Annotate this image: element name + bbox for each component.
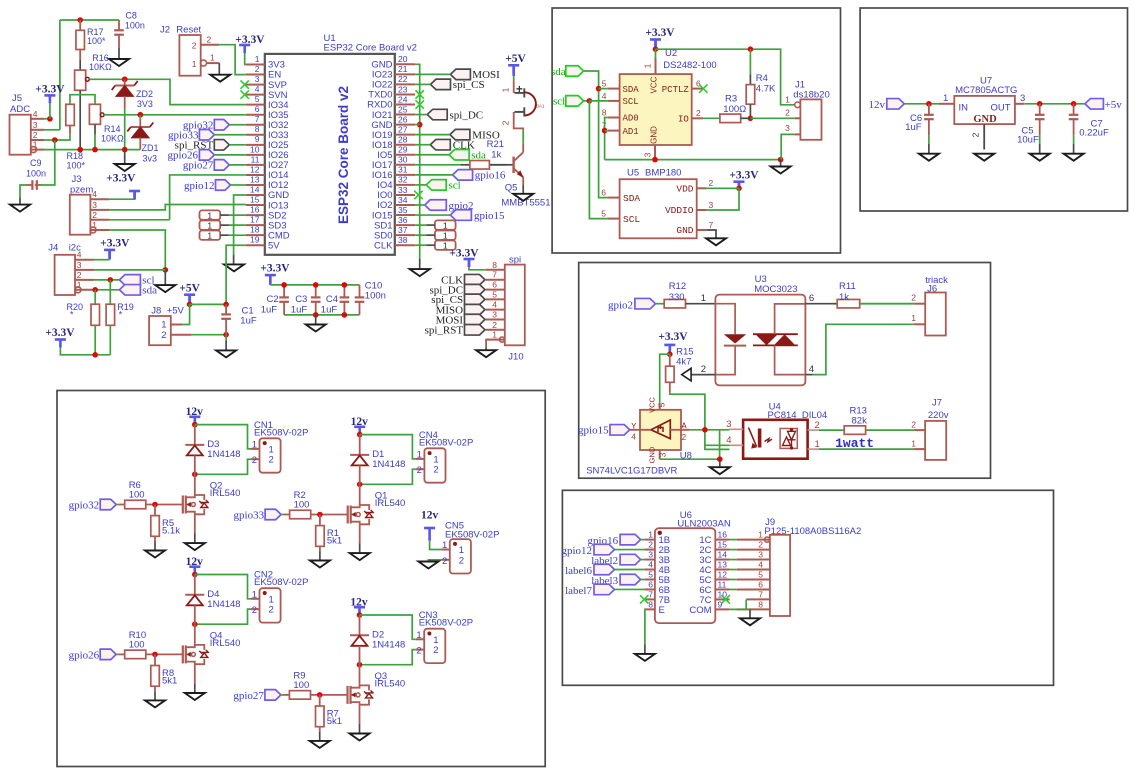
svg-text:4: 4 [726,435,731,446]
svg-text:scl: scl [449,180,461,192]
svg-text:6: 6 [758,579,763,589]
svg-text:+3.3V: +3.3V [106,173,136,185]
svg-text:ESP32 Core Board v2: ESP32 Core Board v2 [336,86,351,224]
svg-text:2: 2 [709,178,714,188]
svg-text:J8: J8 [151,305,161,316]
svg-text:4: 4 [77,250,82,260]
svg-text:17: 17 [250,215,260,225]
svg-text:gpio15: gpio15 [474,210,505,222]
svg-text:2: 2 [92,210,97,220]
svg-text:+3.3V: +3.3V [449,247,479,259]
svg-text:GND: GND [676,225,693,236]
svg-text:1: 1 [492,330,497,340]
svg-text:gpio12: gpio12 [184,180,215,192]
svg-text:C9: C9 [30,158,42,168]
svg-text:label6: label6 [565,565,592,577]
svg-text:13: 13 [250,174,260,184]
svg-text:1: 1 [758,530,763,540]
svg-text:3: 3 [785,123,790,133]
svg-text:18: 18 [250,225,260,235]
svg-text:6: 6 [696,78,701,88]
svg-text:100: 100 [293,680,309,691]
svg-text:1uF: 1uF [905,122,922,133]
svg-text:E: E [659,605,665,616]
svg-text:14: 14 [718,550,728,560]
svg-text:ADC: ADC [10,104,30,115]
svg-text:GND: GND [973,114,997,125]
svg-text:16: 16 [718,530,728,540]
svg-text:IRL540: IRL540 [375,679,406,690]
svg-text:1: 1 [416,630,421,641]
svg-text:gpio27: gpio27 [183,160,214,172]
svg-text:14: 14 [250,184,260,194]
svg-text:DS2482-100: DS2482-100 [663,60,716,71]
svg-text:2: 2 [433,645,438,656]
svg-text:22: 22 [398,74,408,84]
svg-text:MC7805ACTG: MC7805ACTG [955,85,1017,96]
svg-text:28: 28 [398,135,408,145]
svg-text:1uF: 1uF [240,316,257,327]
svg-text:1: 1 [701,293,706,304]
svg-text:GND: GND [648,446,657,463]
svg-text:J2: J2 [160,25,170,36]
svg-text:2: 2 [696,108,701,118]
svg-text:100*: 100* [87,36,106,46]
svg-text:3: 3 [77,260,82,270]
svg-text:label7: label7 [565,585,592,597]
svg-text:1N4148: 1N4148 [207,599,240,610]
svg-text:2: 2 [416,646,421,657]
svg-text:1: 1 [442,540,447,551]
svg-text:32: 32 [398,175,408,185]
svg-text:10: 10 [718,589,728,599]
svg-text:J3: J3 [72,174,82,185]
svg-text:5: 5 [758,569,763,579]
svg-text:CLK: CLK [374,240,393,251]
svg-text:Reset: Reset [176,25,201,36]
svg-text:spi_RST: spi_RST [425,325,464,337]
svg-text:6: 6 [255,104,260,114]
svg-text:8: 8 [758,599,763,609]
svg-text:AD0: AD0 [623,114,639,124]
svg-text:2: 2 [500,120,510,125]
svg-text:15: 15 [718,540,728,550]
svg-text:1: 1 [815,439,820,450]
svg-text:31: 31 [398,165,408,175]
svg-text:ZD2: ZD2 [136,89,153,99]
svg-text:R21: R21 [487,139,504,150]
svg-text:3: 3 [658,452,668,457]
svg-text:3: 3 [758,550,763,560]
svg-text:13: 13 [718,560,728,570]
svg-text:C2: C2 [267,294,279,305]
svg-text:4: 4 [809,364,814,375]
svg-text:BMP180: BMP180 [645,168,681,179]
svg-text:5k1: 5k1 [327,716,342,727]
svg-text:34: 34 [398,195,408,205]
svg-text:U8: U8 [680,451,692,462]
svg-text:5: 5 [492,289,497,299]
svg-text:+5V: +5V [167,305,185,316]
svg-text:4: 4 [492,300,497,310]
svg-text:11: 11 [718,579,727,589]
svg-text:9: 9 [718,599,723,609]
svg-text:1N4148: 1N4148 [372,640,405,651]
svg-text:100n: 100n [365,291,386,302]
svg-text:3V3: 3V3 [137,99,153,109]
svg-text:3: 3 [643,152,653,157]
svg-text:2: 2 [648,540,653,550]
svg-text:U5: U5 [627,168,639,179]
svg-text:1k: 1k [491,150,501,161]
svg-text:1: 1 [643,63,653,68]
svg-text:2: 2 [492,320,497,330]
svg-text:gpio32: gpio32 [69,500,100,512]
svg-text:20: 20 [398,54,408,64]
svg-text:2: 2 [255,64,260,74]
svg-text:IRL540: IRL540 [210,638,241,649]
svg-text:gpio15: gpio15 [578,425,609,437]
svg-text:1: 1 [443,241,448,251]
svg-text:5: 5 [602,79,607,89]
svg-text:100*: 100* [67,161,86,171]
svg-text:SN74LVC1G17DBVR: SN74LVC1G17DBVR [586,466,677,477]
svg-text:R12: R12 [669,281,686,292]
svg-text:38: 38 [398,235,408,245]
svg-text:33: 33 [398,185,408,195]
svg-text:1: 1 [943,93,948,104]
svg-text:VCC: VCC [648,397,657,413]
svg-text:Y: Y [631,422,636,432]
svg-text:8: 8 [602,108,607,118]
svg-text:2: 2 [459,555,464,566]
svg-text:1: 1 [443,220,448,230]
svg-text:3: 3 [648,550,653,560]
svg-text:1: 1 [648,530,653,540]
svg-text:1: 1 [207,210,212,220]
svg-text:R20: R20 [67,302,84,312]
svg-text:EK508V-02P: EK508V-02P [419,437,473,448]
svg-text:sda: sda [142,285,157,297]
svg-text:2: 2 [269,455,274,466]
svg-text:7: 7 [255,114,260,124]
svg-text:1: 1 [192,59,197,69]
svg-text:1: 1 [252,589,257,600]
svg-text:PCTLZ: PCTLZ [662,85,690,95]
svg-text:SDA: SDA [623,193,640,204]
svg-text:2: 2 [161,330,166,341]
svg-text:2: 2 [701,364,706,375]
svg-text:GND: GND [650,126,659,144]
svg-text:VDD: VDD [676,184,693,195]
svg-text:BA1: BA1 [536,104,545,109]
svg-text:7: 7 [492,270,497,280]
svg-text:1N4148: 1N4148 [372,459,405,470]
svg-text:1: 1 [417,449,422,460]
svg-text:10: 10 [250,144,260,154]
svg-text:4: 4 [33,109,38,119]
svg-text:10uF: 10uF [1017,135,1039,146]
svg-text:19: 19 [250,235,260,245]
svg-text:100: 100 [129,490,145,501]
svg-text:6: 6 [492,280,497,290]
svg-text:3: 3 [1020,93,1025,104]
svg-text:7: 7 [648,589,653,599]
svg-text:23: 23 [398,84,408,94]
svg-text:4: 4 [631,432,636,442]
svg-text:5k1: 5k1 [162,675,177,686]
svg-text:*: * [70,310,74,320]
svg-text:25: 25 [398,104,408,114]
svg-text:+3.3V: +3.3V [645,27,675,39]
svg-text:2: 2 [77,270,82,280]
svg-text:1: 1 [500,87,510,92]
svg-text:0.22uF: 0.22uF [1079,128,1109,139]
svg-text:gpio26: gpio26 [69,649,100,661]
svg-text:+3.3V: +3.3V [35,84,65,96]
svg-text:C8: C8 [125,11,137,21]
svg-text:IRL540: IRL540 [375,498,406,509]
svg-text:36: 36 [398,215,408,225]
svg-text:1uF: 1uF [261,305,278,316]
svg-text:1: 1 [443,230,448,240]
svg-text:2: 2 [433,465,438,476]
svg-text:7: 7 [758,589,763,599]
svg-text:6: 6 [601,187,606,197]
svg-text:ZD1: ZD1 [142,143,159,153]
svg-text:gpio33: gpio33 [234,510,265,522]
svg-text:U2: U2 [665,48,677,59]
svg-text:4: 4 [758,560,763,570]
svg-text:gpio2: gpio2 [608,300,633,312]
svg-text:82k: 82k [852,416,868,427]
svg-text:2: 2 [252,455,257,466]
svg-text:+5V: +5V [179,283,200,295]
svg-text:1k: 1k [839,292,849,303]
svg-text:29: 29 [398,145,408,155]
svg-text:4: 4 [648,560,653,570]
svg-text:30: 30 [398,155,408,165]
svg-text:16: 16 [250,205,260,215]
svg-text:3: 3 [33,120,38,130]
svg-text:2: 2 [442,556,447,567]
svg-text:+3.3V: +3.3V [729,169,759,181]
svg-text:5k1: 5k1 [327,536,342,547]
svg-text:4: 4 [602,91,607,101]
svg-text:2: 2 [207,34,212,44]
svg-text:2: 2 [785,108,790,118]
svg-text:IO: IO [678,115,689,125]
svg-text:5V: 5V [268,240,280,251]
svg-text:+3.3V: +3.3V [658,331,688,343]
svg-text:3: 3 [726,419,731,430]
svg-text:EK508V-02P: EK508V-02P [254,427,308,438]
svg-text:2: 2 [252,605,257,616]
svg-text:12: 12 [250,164,260,174]
svg-text:1: 1 [207,220,212,230]
svg-text:gpio12: gpio12 [561,545,592,557]
svg-text:+3.3V: +3.3V [100,237,130,249]
svg-text:3: 3 [709,200,714,210]
svg-text:1: 1 [911,439,916,449]
svg-text:VDDIO: VDDIO [665,205,694,216]
svg-text:+3.3V: +3.3V [260,263,290,275]
svg-text:MOC3023: MOC3023 [754,284,797,295]
svg-text:C3: C3 [295,294,307,305]
svg-text:5: 5 [657,402,667,407]
svg-text:VCC: VCC [650,76,659,93]
svg-text:100n: 100n [125,21,145,31]
svg-text:8: 8 [255,124,260,134]
svg-text:gpio27: gpio27 [233,690,264,702]
svg-text:9: 9 [255,134,260,144]
svg-text:2: 2 [971,132,981,137]
svg-text:27: 27 [398,124,408,134]
svg-text:1: 1 [911,313,916,323]
svg-text:1: 1 [255,54,260,64]
svg-text:J7: J7 [932,398,942,409]
svg-text:AD1: AD1 [623,127,639,137]
svg-text:12: 12 [718,569,728,579]
svg-text:7: 7 [709,220,714,230]
svg-text:R3: R3 [725,94,737,105]
svg-text:1N4148: 1N4148 [207,449,240,460]
svg-text:R11: R11 [839,281,856,292]
svg-text:sda: sda [551,66,566,78]
svg-text:spi_DC: spi_DC [450,109,484,121]
svg-text:330: 330 [669,292,685,303]
svg-text:4.7K: 4.7K [756,84,776,95]
svg-text:21: 21 [398,64,408,74]
svg-text:100n: 100n [26,169,46,179]
svg-text:gpio16: gpio16 [475,170,506,182]
svg-text:IRL540: IRL540 [210,488,241,499]
svg-text:10KΩ: 10KΩ [89,62,112,72]
svg-text:5: 5 [648,569,653,579]
svg-text:12v: 12v [421,510,439,522]
svg-text:+: + [516,84,523,96]
svg-text:2: 2 [192,41,197,51]
svg-text:37: 37 [398,225,408,235]
svg-text:C4: C4 [326,294,338,305]
svg-text:1: 1 [207,230,212,240]
svg-text:5: 5 [601,208,606,218]
svg-text:4k7: 4k7 [676,357,691,368]
svg-text:12v: 12v [869,99,886,111]
svg-text:spi_CS: spi_CS [453,79,485,91]
svg-text:4: 4 [92,189,97,199]
svg-text:8: 8 [492,260,497,270]
svg-text:11: 11 [251,154,260,164]
svg-text:2: 2 [758,540,763,550]
svg-text:6: 6 [809,293,814,304]
svg-text:1watt: 1watt [835,436,874,451]
svg-text:SCL: SCL [623,97,639,107]
svg-text:3: 3 [92,200,97,210]
svg-text:2: 2 [911,420,916,430]
svg-text:10KΩ: 10KΩ [101,134,124,144]
svg-text:1: 1 [252,439,257,450]
svg-text:6: 6 [648,579,653,589]
svg-text:2: 2 [417,465,422,476]
svg-text:J4: J4 [48,243,58,254]
svg-text:220v: 220v [928,410,949,421]
svg-text:2: 2 [911,293,916,303]
svg-text:+3.3V: +3.3V [45,327,75,339]
svg-text:8: 8 [648,599,653,609]
svg-text:4: 4 [255,84,260,94]
svg-text:+5V: +5V [505,53,526,65]
svg-text:3v3: 3v3 [143,154,158,164]
svg-text:COM: COM [689,605,711,616]
svg-text:+5v: +5v [1105,99,1123,111]
svg-text:2: 2 [682,432,687,442]
svg-text:3: 3 [492,310,497,320]
svg-text:2: 2 [815,420,820,431]
svg-text:OUT: OUT [990,103,1010,114]
svg-text:J10: J10 [508,352,523,363]
svg-text:R14: R14 [104,124,121,134]
svg-text:24: 24 [398,94,408,104]
svg-text:2: 2 [33,130,38,140]
svg-text:EK508V-02P: EK508V-02P [254,577,308,588]
svg-text:26: 26 [398,114,408,124]
svg-text:3: 3 [255,74,260,84]
svg-text:100Ω: 100Ω [723,104,746,115]
svg-text:1: 1 [210,53,215,63]
svg-text:R18: R18 [67,151,84,161]
svg-text:EK508V-02P: EK508V-02P [419,618,473,629]
svg-text:J5: J5 [12,93,22,104]
svg-text:scl: scl [553,96,565,108]
svg-text:100: 100 [129,639,145,650]
svg-text:1uF: 1uF [291,305,308,316]
svg-text:A: A [682,421,688,431]
svg-text:Q5: Q5 [505,183,518,194]
svg-text:5: 5 [255,94,260,104]
svg-text:5.1k: 5.1k [162,526,180,537]
svg-text:ESP32 Core Board v2: ESP32 Core Board v2 [324,43,417,54]
svg-text:R4: R4 [756,73,768,84]
svg-text:1uF: 1uF [321,305,338,316]
svg-text:*: * [119,310,123,320]
svg-text:2: 2 [269,605,274,616]
svg-text:100: 100 [294,500,310,511]
svg-text:IN: IN [959,103,969,114]
svg-text:15: 15 [250,194,260,204]
svg-text:SCL: SCL [623,214,640,225]
svg-text:1: 1 [785,94,790,104]
svg-text:SDA: SDA [623,85,640,95]
svg-text:35: 35 [398,205,408,215]
